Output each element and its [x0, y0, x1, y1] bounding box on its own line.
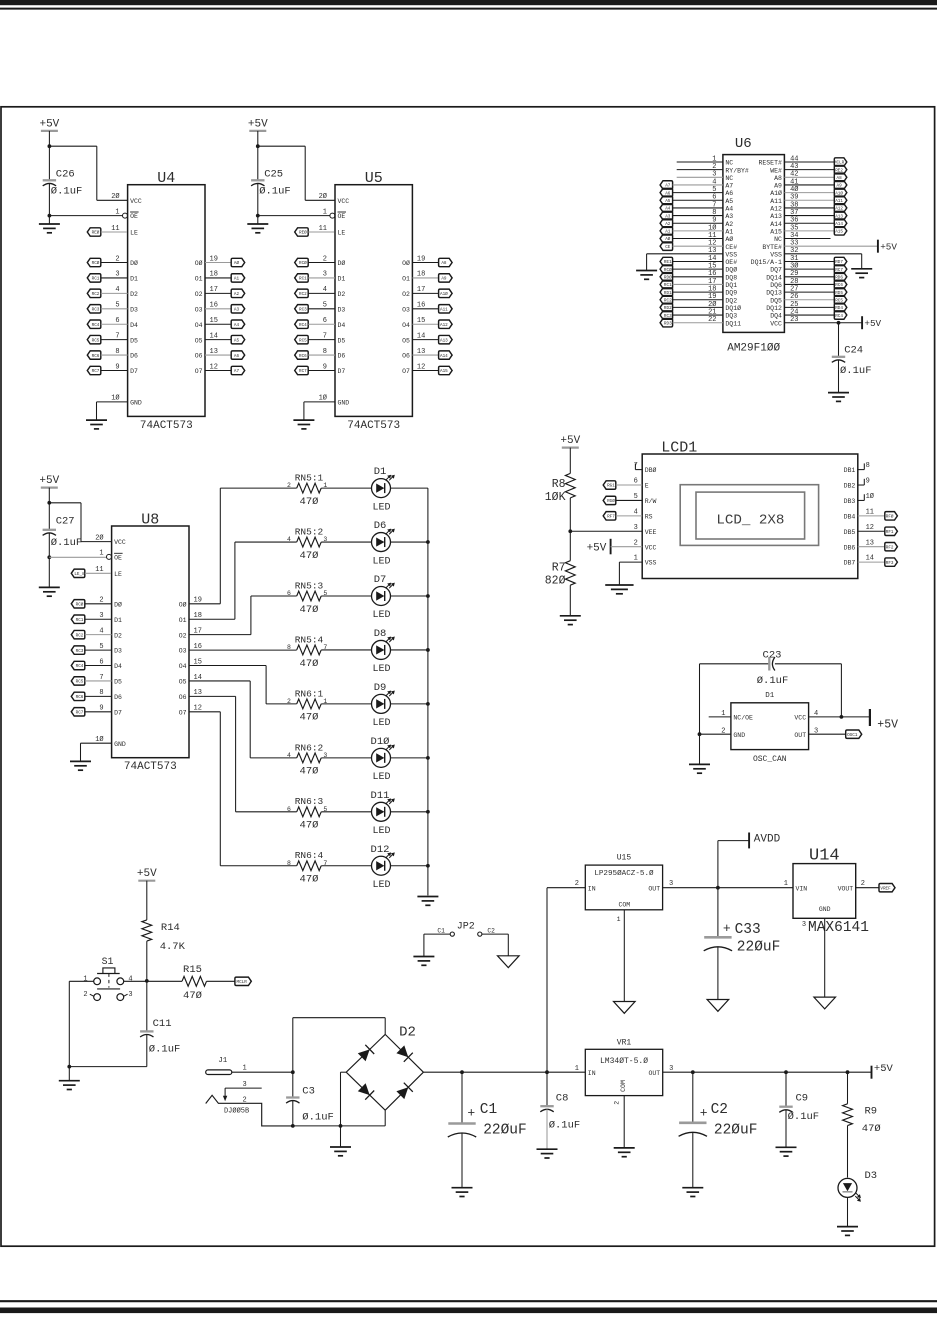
capacitor C23 0.1uF [700, 663, 770, 665]
IC U4 74ACT573 [128, 185, 205, 417]
svg-text:4: 4 [287, 752, 291, 759]
svg-text:VSS: VSS [770, 251, 782, 258]
svg-text:RC3: RC3 [299, 307, 307, 312]
U5 pin 7 D5 wire / net RC5 [295, 335, 309, 343]
voltage regulator VR1 LM340T-5.0 [585, 1049, 662, 1095]
svg-text:D1: D1 [374, 466, 387, 478]
wire C11 to ground rail [146, 1034, 148, 1066]
ground under LCD VSS [605, 584, 633, 586]
svg-text:1Ø: 1Ø [319, 394, 327, 403]
triangle ground under C33 [707, 1000, 729, 1012]
svg-text:+5V: +5V [864, 318, 881, 329]
svg-text:DQ5: DQ5 [770, 297, 782, 304]
svg-text:1Ø: 1Ø [111, 394, 119, 403]
resistor R8 10K [569, 448, 571, 474]
svg-text:1: 1 [323, 208, 327, 216]
U5 pin 2 D0 wire / net RC0 [295, 258, 309, 266]
svg-text:AVDD: AVDD [754, 834, 781, 846]
svg-text:VOUT: VOUT [838, 885, 854, 892]
wire VR1 OUT to +5V rail [663, 1071, 872, 1073]
svg-text:O3: O3 [179, 648, 187, 655]
svg-text:RC4: RC4 [76, 664, 84, 669]
svg-text:AM29F1ØØ: AM29F1ØØ [727, 342, 780, 354]
svg-text:A8: A8 [441, 261, 447, 266]
svg-text:OUT: OUT [648, 1070, 660, 1077]
U5 O4 wire / net tag A12 [412, 323, 438, 325]
resistor R14 4.7K [142, 920, 152, 941]
svg-text:6: 6 [287, 590, 291, 597]
resistor RN5:3 470 [297, 591, 322, 601]
U4 O1 wire / net tag A1 [205, 277, 231, 279]
svg-text:OE: OE [114, 555, 122, 562]
svg-text:RF2: RF2 [886, 545, 894, 550]
ground under D3 [837, 1226, 858, 1228]
svg-text:C23: C23 [763, 649, 782, 661]
U8 pin 5 D3 wire / net RC3 [71, 646, 85, 654]
svg-text:NC: NC [774, 236, 782, 243]
svg-text:RC5: RC5 [92, 338, 100, 343]
svg-text:3: 3 [802, 921, 806, 929]
svg-text:47Ø: 47Ø [300, 766, 319, 778]
svg-text:D7: D7 [114, 709, 122, 716]
U5 O0 wire / net tag A8 [412, 262, 438, 264]
resistor R15 470 [147, 980, 182, 982]
svg-text:D6: D6 [338, 353, 346, 360]
svg-text:LED: LED [372, 556, 390, 567]
svg-text:VCC: VCC [114, 539, 126, 546]
wire D6 to rail [391, 541, 428, 543]
svg-text:J1: J1 [218, 1057, 228, 1065]
svg-text:RF3: RF3 [886, 561, 894, 566]
svg-text:A13: A13 [770, 213, 782, 220]
svg-text:9: 9 [323, 363, 327, 371]
svg-text:O7: O7 [179, 709, 187, 716]
wire C26 to ground / OE [48, 183, 50, 224]
svg-text:RC6: RC6 [92, 354, 100, 359]
svg-text:A2: A2 [234, 292, 240, 297]
svg-text:R/W: R/W [645, 498, 657, 505]
LED D1 [372, 479, 391, 498]
svg-text:JP2: JP2 [457, 921, 475, 932]
wire C8 to ground [546, 1109, 548, 1149]
ground under C2 [682, 1187, 703, 1189]
svg-text:D3: D3 [338, 306, 346, 313]
svg-text:4.7K: 4.7K [160, 941, 186, 953]
svg-text:RN5:2: RN5:2 [295, 526, 324, 537]
svg-text:D1: D1 [130, 276, 138, 283]
U8 pin 4 D2 wire / net RC2 [71, 630, 85, 638]
svg-text:+5V: +5V [39, 118, 59, 130]
svg-text:A1Ø: A1Ø [770, 189, 782, 197]
svg-text:VCC: VCC [794, 715, 806, 722]
svg-text:1: 1 [242, 1065, 246, 1073]
svg-text:+5V: +5V [39, 475, 59, 487]
wire RN6:2 to D10 [321, 757, 371, 759]
svg-text:DQ11: DQ11 [725, 320, 741, 327]
svg-text:VEE: VEE [645, 529, 657, 536]
svg-text:1: 1 [83, 975, 87, 983]
svg-text:A9: A9 [441, 277, 447, 282]
svg-text:MAX6141: MAX6141 [808, 920, 869, 936]
U5 O6 wire / net tag A14 [412, 354, 438, 356]
capacitor C1 220uF [461, 1072, 463, 1123]
svg-text:DQØ: DQØ [725, 266, 737, 274]
svg-text:VIN: VIN [796, 885, 808, 892]
ground under C25 [247, 223, 268, 225]
wire U8 O2 to LED row D7 [189, 634, 251, 636]
svg-text:C8: C8 [556, 1092, 569, 1104]
resistor RN6:1 470 [297, 699, 322, 709]
svg-text:LED: LED [372, 718, 390, 729]
svg-text:D3: D3 [865, 1170, 878, 1182]
svg-text:DQ15/A-1: DQ15/A-1 [751, 259, 782, 266]
svg-text:DQ6: DQ6 [770, 282, 782, 289]
resistor R9 470 [847, 1072, 849, 1104]
svg-text:O6: O6 [179, 694, 187, 701]
svg-text:22ØuF: 22ØuF [737, 940, 781, 956]
svg-text:LCD1: LCD1 [661, 440, 697, 457]
svg-text:2: 2 [575, 880, 579, 888]
oscillator D1 OSC_CAN [731, 703, 809, 750]
U4 O4 wire / net tag A4 [205, 323, 231, 325]
wire +5V to U8 VCC [48, 488, 50, 503]
wire D7 to rail [391, 595, 428, 597]
svg-text:O7: O7 [195, 368, 203, 375]
U4 pin 5 D3 wire / net RC3 [87, 305, 101, 313]
LED D8 [372, 640, 391, 659]
svg-text:1: 1 [784, 880, 788, 888]
svg-text:1ØK: 1ØK [545, 491, 566, 504]
svg-text:D1: D1 [765, 692, 775, 700]
wire C24 to ground [838, 360, 840, 393]
svg-text:+: + [723, 921, 731, 936]
svg-text:4: 4 [287, 536, 291, 543]
wire D9 to rail [391, 703, 428, 705]
wire C9 to ground [785, 1110, 787, 1148]
wire D1 to rail [391, 487, 428, 489]
wire +5V to VCC [257, 131, 259, 146]
svg-text:LED: LED [372, 772, 390, 783]
svg-text:DØ: DØ [114, 600, 122, 608]
ground under C27 [39, 586, 60, 588]
LCD display bezel [680, 485, 818, 546]
svg-text:CE#: CE# [725, 244, 737, 251]
wire C2 to ground [692, 1133, 694, 1188]
U5 pin 5 D3 wire / net RC3 [295, 305, 309, 313]
svg-text:VCC: VCC [770, 320, 782, 327]
wire LCD VSS to ground [619, 561, 642, 563]
svg-text:3: 3 [323, 271, 327, 279]
wire U8 O7 to LED row D12 [189, 711, 220, 713]
svg-text:U5: U5 [365, 170, 383, 187]
U4 O7 wire / net tag A7 [205, 370, 231, 372]
U5 O7 wire / net tag A15 [412, 370, 438, 372]
svg-text:A1: A1 [234, 277, 240, 282]
svg-text:D8: D8 [374, 628, 387, 640]
J1 pin 1 wire [232, 1071, 293, 1073]
svg-text:D6: D6 [114, 694, 122, 701]
svg-text:9: 9 [866, 478, 870, 486]
svg-text:D3: D3 [130, 306, 138, 313]
svg-text:47Ø: 47Ø [300, 604, 319, 616]
svg-text:NC: NC [725, 160, 733, 167]
svg-text:DJØØ5B: DJØØ5B [224, 1106, 249, 1115]
bridge diode bottom-left [358, 1083, 370, 1095]
svg-text:C2: C2 [711, 1102, 728, 1118]
ground under oscillator [689, 763, 710, 765]
U5 pin 9 D7 wire / net RC7 [295, 366, 309, 374]
wire U8 O0 to LED row D1 [189, 603, 220, 605]
svg-text:47Ø: 47Ø [300, 874, 319, 886]
svg-text:RF1: RF1 [886, 530, 894, 535]
svg-text:4: 4 [634, 508, 638, 516]
svg-text:DQ4: DQ4 [770, 313, 782, 320]
svg-text:VCC: VCC [130, 198, 142, 205]
svg-text:O5: O5 [179, 679, 187, 686]
svg-text:OSC1: OSC1 [847, 733, 858, 738]
svg-text:REØ: REØ [299, 231, 307, 236]
ground under LED rail [417, 896, 438, 898]
ground under C26 [39, 223, 60, 225]
svg-text:6: 6 [323, 317, 327, 325]
U6 VSS pin 32 wire to ground [784, 253, 861, 255]
LED D11 [372, 802, 391, 821]
svg-text:RN6:1: RN6:1 [295, 688, 324, 699]
U5 pin 8 D6 wire / net RC6 [295, 351, 309, 359]
svg-text:A5: A5 [234, 338, 240, 343]
svg-text:14: 14 [866, 555, 874, 563]
svg-text:D7: D7 [130, 368, 138, 375]
svg-text:DB6: DB6 [844, 544, 856, 551]
svg-text:U8: U8 [141, 511, 159, 528]
svg-text:R14: R14 [161, 922, 180, 934]
svg-text:A7: A7 [234, 369, 240, 374]
svg-text:RC2: RC2 [76, 633, 84, 638]
svg-text:8: 8 [99, 689, 103, 697]
svg-text:RN5:3: RN5:3 [295, 580, 324, 591]
wire C1 to ground [461, 1134, 463, 1188]
svg-text:2: 2 [115, 255, 119, 263]
svg-text:7: 7 [323, 332, 327, 340]
ground under JP2 left [413, 956, 434, 958]
svg-text:DQ8: DQ8 [725, 274, 737, 281]
svg-text:VSS: VSS [645, 560, 657, 567]
svg-text:CE: CE [665, 245, 671, 250]
svg-text:Ø.1uF: Ø.1uF [549, 1120, 581, 1132]
svg-text:IN: IN [588, 885, 596, 892]
svg-text:RD3: RD3 [664, 321, 672, 326]
U8 pin 2 D0 wire / net RC0 [71, 600, 85, 608]
svg-text:1: 1 [634, 555, 638, 563]
wire +5V to R14 [146, 881, 148, 920]
LCD1 pin 7 stub [635, 469, 642, 471]
wire VR1 COM to ground [623, 1096, 625, 1148]
U4 pin 2 D0 wire / net RC0 [87, 258, 101, 266]
bridge diode top-right [396, 1045, 408, 1057]
wire rail to U15 IN [546, 888, 548, 1072]
svg-text:DB3: DB3 [844, 498, 856, 505]
svg-text:O3: O3 [402, 306, 410, 313]
svg-text:4: 4 [128, 975, 132, 983]
svg-text:GND: GND [114, 741, 126, 748]
U4 O5 wire / net tag A5 [205, 339, 231, 341]
svg-text:NC: NC [725, 175, 733, 182]
wire U8 O6 to LED row D11 [189, 695, 236, 697]
svg-text:2: 2 [861, 880, 865, 888]
wire S1 pin4 to junction [124, 980, 147, 982]
svg-text:R15: R15 [183, 964, 202, 976]
svg-text:+5V: +5V [874, 1063, 894, 1075]
svg-text:RC4: RC4 [92, 323, 100, 328]
U4 pin 9 D7 wire / net RC7 [87, 366, 101, 374]
svg-text:COM: COM [620, 1080, 627, 1092]
wire JP2 pin C2 to power flag [482, 933, 508, 935]
svg-text:C9: C9 [796, 1093, 809, 1105]
wire RN6:3 to D11 [321, 811, 371, 813]
ground under U5 [293, 419, 314, 421]
wire C27 to ground / U8 OE [48, 533, 50, 588]
svg-text:11: 11 [866, 508, 874, 516]
wire bridge bottom vertex to AC bottom rail [384, 1110, 386, 1126]
svg-text:RC3: RC3 [92, 307, 100, 312]
resistor RN6:2 470 [297, 753, 322, 763]
svg-text:7: 7 [115, 332, 119, 340]
wire R14 to node MCLR junction [146, 941, 148, 981]
svg-text:A6: A6 [234, 354, 240, 359]
svg-text:D4: D4 [114, 663, 122, 670]
svg-text:DQ1Ø: DQ1Ø [725, 304, 741, 312]
svg-text:D9: D9 [374, 682, 387, 694]
triangle ground JP2 right [498, 956, 520, 968]
wire R7 to ground [569, 585, 571, 616]
svg-text:47Ø: 47Ø [300, 550, 319, 562]
svg-text:Ø.1uF: Ø.1uF [840, 365, 872, 377]
wire C23 left to ground rail [699, 664, 701, 765]
svg-text:2: 2 [242, 1097, 246, 1105]
svg-text:47Ø: 47Ø [183, 990, 202, 1002]
svg-text:3: 3 [99, 612, 103, 620]
svg-text:2: 2 [99, 597, 103, 605]
wire D12 to rail [391, 865, 428, 867]
svg-text:D2: D2 [130, 291, 138, 298]
bridge diode bottom-right [396, 1087, 408, 1099]
capacitor C24 0.1uF [838, 323, 840, 357]
wire RN6:1 to D9 [321, 703, 371, 705]
svg-text:DB1: DB1 [844, 467, 856, 474]
svg-text:O6: O6 [195, 353, 203, 360]
svg-text:13: 13 [866, 539, 874, 547]
U4 O3 wire / net tag A3 [205, 308, 231, 310]
svg-text:RY/BY#: RY/BY# [725, 167, 749, 174]
svg-text:5: 5 [634, 493, 638, 501]
svg-text:O3: O3 [195, 306, 203, 313]
+5V bar at rail end [871, 1066, 873, 1079]
svg-text:O1: O1 [195, 276, 203, 283]
U4 O0 wire / net tag A0 [205, 262, 231, 264]
svg-text:Ø.1uF: Ø.1uF [149, 1044, 181, 1056]
bridge diode top-left [358, 1049, 370, 1061]
svg-text:8: 8 [866, 462, 870, 470]
svg-text:OE: OE [338, 213, 346, 220]
wire RN5:2 to D6 [321, 541, 371, 543]
U6 BYTE# pin 33 wire to +5V [784, 245, 878, 247]
svg-text:3: 3 [634, 524, 638, 532]
svg-text:1Ø: 1Ø [866, 492, 874, 501]
svg-text:O2: O2 [179, 632, 187, 639]
svg-text:A8: A8 [774, 175, 782, 182]
svg-text:Ø.1uF: Ø.1uF [51, 186, 83, 198]
LED D7 [372, 587, 391, 606]
LED D10 [372, 748, 391, 767]
svg-text:RC7: RC7 [299, 369, 307, 374]
svg-text:A2: A2 [725, 221, 733, 228]
svg-text:OSC_CAN: OSC_CAN [753, 755, 787, 764]
svg-text:6: 6 [287, 806, 291, 813]
svg-text:U4: U4 [157, 170, 175, 187]
svg-text:Ø.1uF: Ø.1uF [757, 675, 789, 687]
svg-text:RN5:1: RN5:1 [295, 473, 324, 484]
wire D11 to rail [391, 811, 428, 813]
svg-text:RN5:4: RN5:4 [295, 634, 324, 645]
triangle ground under U14 [814, 997, 836, 1009]
svg-text:RC6: RC6 [76, 695, 84, 700]
svg-text:LE: LE [114, 571, 122, 578]
svg-text:LE: LE [130, 230, 138, 237]
capacitor C2 220uF [692, 1072, 694, 1123]
svg-text:22ØuF: 22ØuF [714, 1123, 758, 1139]
svg-text:O4: O4 [179, 663, 187, 670]
svg-text:A1Ø: A1Ø [440, 292, 448, 297]
svg-text:74ACT573: 74ACT573 [124, 761, 177, 773]
svg-text:RC7: RC7 [76, 711, 84, 716]
svg-text:LM34ØT-5.Ø: LM34ØT-5.Ø [600, 1057, 648, 1066]
U5 pin 6 D4 wire / net RC4 [295, 320, 309, 328]
U8 pin 7 D5 wire / net RC5 [71, 677, 85, 685]
svg-text:DB4: DB4 [844, 513, 856, 520]
svg-text:R8: R8 [552, 478, 566, 491]
svg-text:R7: R7 [552, 562, 566, 575]
ground under C1 [452, 1187, 473, 1189]
svg-text:+5V: +5V [880, 241, 897, 252]
svg-text:LED: LED [372, 502, 390, 513]
svg-text:IN: IN [588, 1070, 596, 1077]
svg-text:DB5: DB5 [844, 529, 856, 536]
svg-text:D6: D6 [374, 520, 387, 532]
wire U15 COM to triangle ground [623, 910, 625, 1002]
svg-text:9: 9 [115, 363, 119, 371]
svg-text:D7: D7 [374, 574, 387, 586]
U4 pin 3 D1 wire / net RC1 [87, 274, 101, 282]
resistor RN6:3 470 [297, 807, 322, 817]
svg-text:COM: COM [618, 902, 630, 909]
svg-text:D1: D1 [114, 617, 122, 624]
svg-text:O5: O5 [195, 337, 203, 344]
wire bridge left vertex to AC bottom rail [341, 1071, 347, 1073]
wire U8 O4 to LED row D9 [189, 665, 266, 667]
svg-text:A3: A3 [234, 307, 240, 312]
svg-text:A6: A6 [725, 190, 733, 197]
svg-text:DØ: DØ [338, 259, 346, 267]
svg-text:D11: D11 [371, 790, 390, 802]
U6 VSS pin 13 wire to ground [647, 253, 723, 255]
svg-text:D5: D5 [130, 337, 138, 344]
svg-text:82Ø: 82Ø [545, 575, 566, 588]
svg-text:RG1: RG1 [607, 484, 615, 489]
wire C33 to triangle ground [717, 947, 719, 999]
svg-text:74ACT573: 74ACT573 [140, 420, 193, 432]
svg-text:D6: D6 [130, 353, 138, 360]
svg-text:A11: A11 [440, 307, 448, 312]
